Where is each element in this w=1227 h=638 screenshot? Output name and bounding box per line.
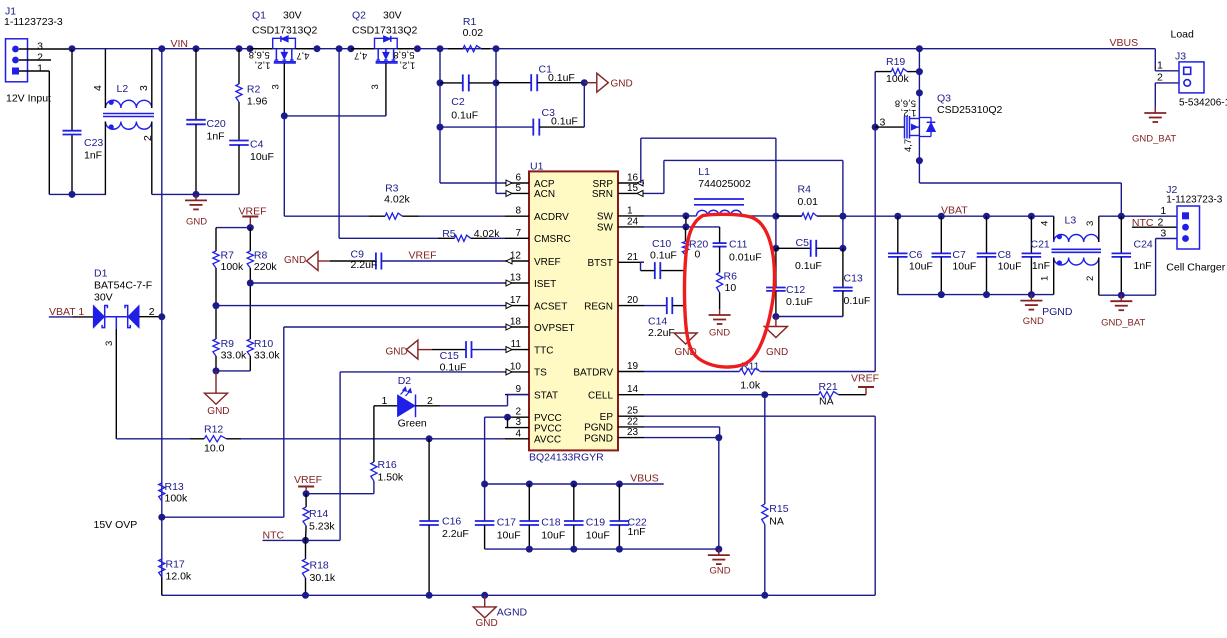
svg-text:ACDRV: ACDRV	[534, 212, 569, 223]
ground triangle AGND	[484, 595, 486, 607]
svg-text:EP: EP	[600, 412, 614, 423]
capacitor C17 10uF	[475, 520, 495, 522]
svg-text:R17: R17	[166, 559, 185, 571]
wire R7 to R9	[215, 268, 217, 339]
svg-text:18: 18	[510, 317, 522, 328]
U1 pin 1 SW	[618, 215, 644, 217]
wire R11 up to Q3 gate node	[874, 127, 876, 371]
wire AGND bottom rail	[162, 594, 875, 596]
svg-text:5,6,8: 5,6,8	[895, 98, 916, 109]
wire TS pin10 route	[340, 371, 505, 373]
U1 pin 2 PVCC	[505, 416, 529, 418]
svg-text:0: 0	[695, 249, 701, 261]
svg-text:Q1: Q1	[252, 10, 266, 22]
U1 pin 13 ISET	[505, 282, 529, 284]
junction R4 left / SRP	[772, 213, 779, 220]
ground symbol GND_BAT at J3	[1154, 107, 1156, 113]
svg-text:2: 2	[1158, 216, 1164, 228]
wire VIN down to D1 pin2 and R13 (x=161.5)	[161, 49, 163, 317]
capacitor C23 1nF	[63, 130, 82, 132]
svg-text:15V OVP: 15V OVP	[94, 519, 138, 531]
junction CELL/R15	[761, 391, 768, 398]
svg-text:R14: R14	[309, 508, 328, 520]
svg-text:R3: R3	[385, 182, 399, 194]
U1 pin 3 PVCC	[505, 427, 529, 429]
wire J1 pin1 down to input return rail	[48, 71, 50, 194]
junction GND_BAT	[1118, 292, 1125, 299]
wire gate net down to ACDRV/R3	[283, 116, 285, 216]
svg-text:C8: C8	[998, 249, 1012, 261]
svg-text:C10: C10	[652, 238, 671, 250]
wire SW24 to C11 tap	[686, 226, 720, 228]
svg-text:4,7: 4,7	[903, 139, 914, 152]
svg-text:VREF: VREF	[409, 250, 437, 262]
wire GND_BAT rail	[1099, 294, 1156, 296]
wire L2 pin3 to VIN rail	[151, 49, 153, 108]
svg-text:20: 20	[627, 295, 639, 306]
svg-text:5.23k: 5.23k	[309, 521, 335, 533]
svg-text:C14: C14	[648, 316, 667, 328]
wire VBUS cap top rail	[485, 483, 664, 485]
svg-text:VBUS: VBUS	[1110, 37, 1139, 49]
node Q1 drain pins 4,7	[314, 45, 321, 52]
svg-text:VREF: VREF	[851, 373, 879, 385]
svg-text:1.50k: 1.50k	[378, 472, 404, 484]
svg-text:1,2,: 1,2,	[399, 59, 415, 70]
svg-text:1nF: 1nF	[1134, 260, 1152, 272]
svg-text:1-1123723-3: 1-1123723-3	[4, 16, 63, 28]
wire EP pin25 to right vertical	[644, 415, 875, 417]
svg-text:1,2,: 1,2,	[901, 107, 917, 118]
svg-text:GND: GND	[1023, 316, 1044, 327]
svg-text:PGND: PGND	[1042, 306, 1073, 318]
junction C16 tap on AVCC row	[426, 435, 433, 442]
svg-text:1,2,: 1,2,	[255, 59, 271, 70]
input return rail (right)	[152, 193, 239, 195]
wire charger output row	[1099, 215, 1177, 217]
wire R16 top to D2 anode	[373, 406, 375, 462]
svg-text:R6: R6	[724, 271, 738, 283]
wire SRP pin16 route	[640, 138, 642, 183]
svg-text:2: 2	[1157, 72, 1163, 84]
svg-text:4: 4	[515, 428, 521, 439]
U1 pin 24 SW	[618, 226, 644, 228]
junction C24	[1118, 213, 1125, 220]
junction divider GND	[213, 367, 220, 374]
wire L2 pin4 from VIN rail	[104, 49, 106, 108]
svg-text:AVCC: AVCC	[534, 435, 561, 446]
svg-text:1.0k: 1.0k	[740, 380, 761, 392]
wire VBUS rail to J3	[919, 48, 1155, 50]
svg-text:L2: L2	[117, 83, 129, 95]
svg-text:Load: Load	[1171, 29, 1195, 41]
capacitor C13 0.1uF	[842, 248, 844, 287]
svg-text:R10: R10	[254, 338, 273, 350]
svg-text:R19: R19	[886, 56, 905, 68]
junction C1/C3 GND node	[581, 79, 588, 86]
svg-text:3: 3	[138, 85, 150, 91]
wire SW pin24 row	[644, 226, 686, 228]
svg-text:SRP: SRP	[592, 179, 613, 190]
Q3 body diode	[919, 117, 931, 119]
wire ACP vertical	[439, 49, 441, 183]
svg-text:9: 9	[515, 384, 521, 395]
svg-text:17: 17	[510, 295, 522, 306]
svg-text:SRN: SRN	[592, 189, 613, 200]
svg-text:PVCC: PVCC	[534, 413, 562, 424]
junction R19 right	[916, 68, 923, 75]
svg-text:VBUS: VBUS	[630, 473, 659, 485]
svg-text:VIN: VIN	[171, 38, 189, 50]
junction gate net	[281, 112, 288, 119]
svg-text:C20: C20	[207, 118, 226, 130]
svg-text:SW: SW	[597, 223, 614, 234]
junction PVCC pins 2/3	[504, 414, 511, 421]
svg-text:16: 16	[627, 173, 639, 184]
svg-text:0.1uF: 0.1uF	[548, 72, 575, 84]
svg-text:22: 22	[627, 416, 639, 427]
junction R13/R17	[158, 514, 165, 521]
wire ACN to C2 right node	[496, 192, 505, 194]
ground symbol below R6	[719, 309, 721, 315]
capacitor C1 0.1uF	[496, 82, 531, 84]
svg-text:100k: 100k	[886, 73, 910, 85]
svg-text:CSD25310Q2: CSD25310Q2	[937, 104, 1003, 116]
capacitor C10 0.1uF	[654, 262, 656, 279]
svg-text:30V: 30V	[94, 292, 113, 304]
svg-text:25: 25	[627, 406, 639, 417]
junction PGND symbol	[1028, 291, 1035, 298]
svg-text:BAT54C-7-F: BAT54C-7-F	[94, 280, 152, 292]
svg-text:21: 21	[627, 252, 639, 263]
U1 pin 5 ACN	[505, 192, 529, 194]
svg-text:Cell Charger: Cell Charger	[1166, 262, 1225, 274]
svg-text:C7: C7	[952, 249, 966, 261]
junction SW1/SW24	[682, 212, 689, 219]
svg-text:13: 13	[510, 273, 522, 284]
svg-text:GND: GND	[709, 328, 730, 339]
svg-text:C2: C2	[451, 96, 465, 108]
svg-text:19: 19	[627, 361, 639, 372]
svg-text:10uF: 10uF	[541, 530, 565, 542]
U1 pin 10 TS	[505, 371, 529, 373]
U1 pin 17 ACSET	[505, 305, 529, 307]
svg-text:4,7: 4,7	[354, 50, 367, 61]
node VIN branch to D1/R13	[158, 45, 165, 52]
svg-text:220k: 220k	[254, 261, 278, 273]
L2 core bars	[103, 113, 154, 115]
svg-text:TS: TS	[534, 368, 547, 379]
U1 pin 9 STAT	[505, 394, 529, 396]
wire C14 to GND	[685, 306, 687, 330]
U1 pin 8 ACDRV	[505, 215, 529, 217]
svg-text:C12: C12	[786, 284, 805, 296]
svg-text:23: 23	[627, 427, 639, 438]
svg-text:Q2: Q2	[352, 10, 366, 22]
capacitor C11 0.01uF	[719, 227, 721, 243]
svg-text:1: 1	[1040, 276, 1051, 281]
resistor R13 100k	[159, 483, 165, 501]
power symbol VREF at R21	[865, 387, 867, 395]
capacitor C18 10uF	[528, 484, 530, 521]
svg-text:100k: 100k	[221, 261, 245, 273]
resistor R18 30.1k	[305, 540, 307, 559]
svg-text:L1: L1	[698, 166, 710, 178]
wire R8 to R10	[249, 268, 251, 339]
wire C3 row	[440, 126, 533, 128]
svg-text:Green: Green	[398, 418, 427, 430]
capacitor C14 2.2uF on REGN	[644, 305, 667, 307]
svg-text:7: 7	[515, 228, 521, 239]
svg-text:8: 8	[515, 206, 521, 217]
svg-text:C16: C16	[442, 516, 461, 528]
resistor R17 12.0k	[159, 559, 165, 577]
wire L2 pin2 down to return rail	[151, 122, 153, 195]
junction C23/rail	[69, 191, 76, 198]
ground symbol PGND	[1030, 295, 1032, 301]
capacitor C8 10uF	[986, 216, 988, 253]
svg-text:BATDRV: BATDRV	[573, 367, 613, 378]
wire ACSET to pin17	[216, 305, 505, 307]
wire CELL pin14	[644, 394, 819, 396]
svg-text:4.02k: 4.02k	[384, 194, 410, 206]
svg-text:2: 2	[1085, 276, 1096, 281]
svg-text:CMSRC: CMSRC	[534, 234, 571, 245]
red hand-drawn circle annotation around C11/R6	[685, 214, 775, 367]
wire SRP node down to C5/C12	[775, 216, 777, 248]
svg-text:10.0: 10.0	[204, 443, 225, 455]
svg-text:D1: D1	[94, 268, 108, 280]
svg-text:C24: C24	[1134, 239, 1153, 251]
junction VREF/R14/R16	[303, 490, 310, 497]
wire L3 pin1 down to PGND rail	[1053, 258, 1055, 295]
junction Q3 drain pins	[916, 89, 923, 96]
resistor R9 33.0k	[213, 339, 219, 356]
svg-text:J3: J3	[1175, 51, 1186, 63]
node VIN between FETs	[336, 45, 343, 52]
junction top rail C19	[570, 481, 577, 488]
svg-text:GND: GND	[284, 255, 306, 266]
svg-text:R8: R8	[254, 250, 268, 262]
junction C2 right	[493, 79, 500, 86]
node C20 tap	[193, 45, 200, 52]
svg-text:0.01uF: 0.01uF	[729, 252, 762, 264]
U1 pin 19 BATDRV	[618, 371, 644, 373]
svg-text:NA: NA	[769, 516, 784, 528]
svg-text:NA: NA	[819, 396, 834, 408]
svg-text:1nF: 1nF	[84, 150, 102, 162]
svg-text:2.2uF: 2.2uF	[442, 528, 469, 540]
svg-text:0.01: 0.01	[798, 196, 819, 208]
svg-text:1nF: 1nF	[628, 526, 646, 538]
L2 bottom winding	[105, 122, 151, 130]
wire D2 cathode to STAT	[440, 405, 508, 407]
junction Q3 gate	[872, 124, 879, 131]
svg-text:SW: SW	[597, 212, 614, 223]
capacitor C2 0.1uF	[440, 82, 463, 84]
junction AGND tap	[481, 592, 488, 599]
wire L1 to R4	[742, 215, 802, 217]
svg-text:5,6,8: 5,6,8	[249, 49, 270, 60]
svg-text:GND: GND	[207, 406, 229, 417]
junction C16 bottom	[426, 592, 433, 599]
ground symbol below C20 rail	[195, 194, 197, 200]
wire NTC stub	[263, 539, 306, 541]
svg-text:10: 10	[725, 282, 737, 294]
svg-text:14: 14	[627, 384, 639, 395]
node R1 left / ACP	[437, 45, 444, 52]
capacitor C3 0.1uF	[532, 119, 534, 136]
svg-text:C13: C13	[844, 273, 863, 285]
wire VIN branch down to CMSRC	[338, 49, 340, 239]
svg-text:ISET: ISET	[534, 279, 556, 290]
svg-text:4: 4	[1040, 221, 1051, 226]
svg-text:GND: GND	[766, 347, 788, 358]
resistor R7 100k	[213, 251, 219, 268]
svg-text:GND: GND	[386, 347, 408, 358]
wire ACN vertical	[495, 49, 497, 194]
svg-text:3: 3	[271, 84, 282, 89]
resistor R6 10	[719, 247, 721, 273]
wire gate tie Q1-Q2	[284, 115, 386, 117]
svg-text:5: 5	[515, 183, 521, 194]
svg-text:ACP: ACP	[534, 179, 555, 190]
wire SW pin1 row	[644, 215, 697, 217]
svg-text:C5: C5	[796, 237, 810, 249]
svg-text:0.02: 0.02	[463, 27, 484, 39]
node Q1 source pins 5,6,8	[247, 45, 254, 52]
wire VBUS cap bottom rail	[485, 548, 719, 550]
svg-text:C19: C19	[586, 517, 605, 529]
resistor R20 0	[685, 227, 687, 242]
junction rail/GND	[193, 191, 200, 198]
capacitor C22 1nF	[618, 484, 620, 521]
junction ISET tap	[247, 280, 254, 287]
wire ACP to C2/C3 node	[440, 182, 505, 184]
capacitor C15 0.1uF	[432, 349, 466, 351]
wire SRN pin15 route	[644, 192, 664, 194]
capacitor C6 10uF	[897, 216, 899, 253]
svg-text:2.2uF: 2.2uF	[351, 259, 378, 271]
junction NTC node R14/R18	[302, 537, 309, 544]
junction C8	[983, 213, 990, 220]
svg-text:TTC: TTC	[534, 345, 553, 356]
svg-text:1: 1	[1160, 205, 1166, 217]
junction snubber GND	[772, 313, 779, 320]
U1 pin 4 AVCC	[505, 438, 529, 440]
svg-text:10uF: 10uF	[250, 151, 274, 163]
svg-text:ACSET: ACSET	[534, 301, 567, 312]
svg-text:PGND: PGND	[584, 423, 613, 434]
svg-text:3: 3	[1160, 228, 1166, 240]
capacitor C21 1nF	[1030, 216, 1032, 253]
wire L3 pin2 down to GND_BAT rail	[1098, 258, 1100, 296]
resistor R14 5.23k	[305, 494, 307, 507]
junction C5 right	[839, 245, 846, 252]
node Q2 source pins 5,6,8	[414, 45, 421, 52]
svg-text:D2: D2	[398, 375, 412, 387]
U1 pin 6 ACP	[505, 182, 529, 184]
wire L3 pin3 up to charger node	[1098, 216, 1100, 242]
svg-text:R15: R15	[769, 503, 788, 515]
resistor R15 NA	[764, 395, 766, 504]
svg-text:10: 10	[510, 361, 522, 372]
ground triangle below C12	[775, 317, 777, 327]
U1 pin 25 EP	[618, 415, 644, 417]
svg-text:100k: 100k	[165, 493, 189, 505]
svg-text:1: 1	[627, 205, 633, 216]
svg-text:C6: C6	[909, 249, 923, 261]
ground arrow right of C1	[584, 82, 597, 84]
U1 pin 12 VREF	[505, 260, 529, 262]
svg-text:REGN: REGN	[584, 301, 613, 312]
svg-text:10uF: 10uF	[909, 261, 933, 273]
svg-text:GND_BAT: GND_BAT	[1101, 318, 1145, 329]
svg-text:5-534206-1: 5-534206-1	[1179, 98, 1227, 109]
wire C12/C13 bottoms	[776, 316, 843, 318]
capacitor C4 10uF	[229, 140, 249, 142]
svg-text:C23: C23	[84, 137, 103, 149]
input return rail (left)	[49, 193, 106, 195]
junction Q3 source pins	[916, 157, 923, 164]
wire 15V OVP node	[162, 516, 284, 518]
svg-text:3: 3	[370, 84, 381, 89]
svg-text:6: 6	[515, 173, 521, 184]
svg-text:1: 1	[37, 63, 43, 75]
svg-text:L3: L3	[1065, 215, 1077, 227]
svg-text:VREF: VREF	[534, 257, 561, 268]
junction SW24	[682, 223, 689, 230]
ground triangle below C14	[685, 330, 687, 333]
svg-text:1-1123723-3: 1-1123723-3	[1166, 195, 1222, 206]
capacitor C12 0.1uF	[775, 248, 777, 287]
junction top rail C18	[526, 481, 533, 488]
node R2 tap	[236, 45, 243, 52]
svg-text:30V: 30V	[383, 10, 402, 22]
junction C2 left	[437, 79, 444, 86]
junction R4 right / SRN	[839, 213, 846, 220]
svg-text:C15: C15	[440, 350, 459, 362]
svg-text:PGND: PGND	[584, 433, 613, 444]
op-amp U1 BQ24133RGYR charger IC body	[529, 171, 618, 450]
U1 pin 22 PGND	[618, 426, 644, 428]
node R1 right / ACN-VBUS	[493, 45, 500, 52]
svg-text:3: 3	[104, 341, 115, 346]
svg-text:0.1uF: 0.1uF	[551, 116, 578, 128]
svg-text:10uF: 10uF	[497, 530, 521, 542]
svg-text:30V: 30V	[283, 10, 302, 22]
svg-text:33.0k: 33.0k	[221, 350, 247, 362]
svg-text:C21: C21	[1031, 239, 1050, 251]
wire PGND pin22 route	[644, 426, 720, 428]
junction top rail C17	[481, 481, 488, 488]
capacitor C20 1nF	[195, 49, 197, 120]
svg-text:11: 11	[511, 339, 522, 350]
U1 pin 14 CELL	[618, 394, 644, 396]
U1 pin 21 BTST	[618, 261, 644, 263]
svg-text:C17: C17	[497, 517, 516, 529]
wire D1 pin3 to R12 row	[116, 438, 190, 440]
wire VBUS down to J3 pin1	[1154, 49, 1156, 71]
svg-text:0.1uF: 0.1uF	[795, 260, 822, 272]
wire PGND rail under caps	[898, 294, 1054, 296]
svg-text:1nF: 1nF	[207, 131, 225, 143]
svg-text:BTST: BTST	[587, 258, 613, 269]
capacitor C24 1nF	[1120, 216, 1122, 253]
svg-text:R9: R9	[221, 338, 235, 350]
svg-text:15: 15	[627, 183, 639, 194]
U1 pin 7 CMSRC	[505, 237, 529, 239]
